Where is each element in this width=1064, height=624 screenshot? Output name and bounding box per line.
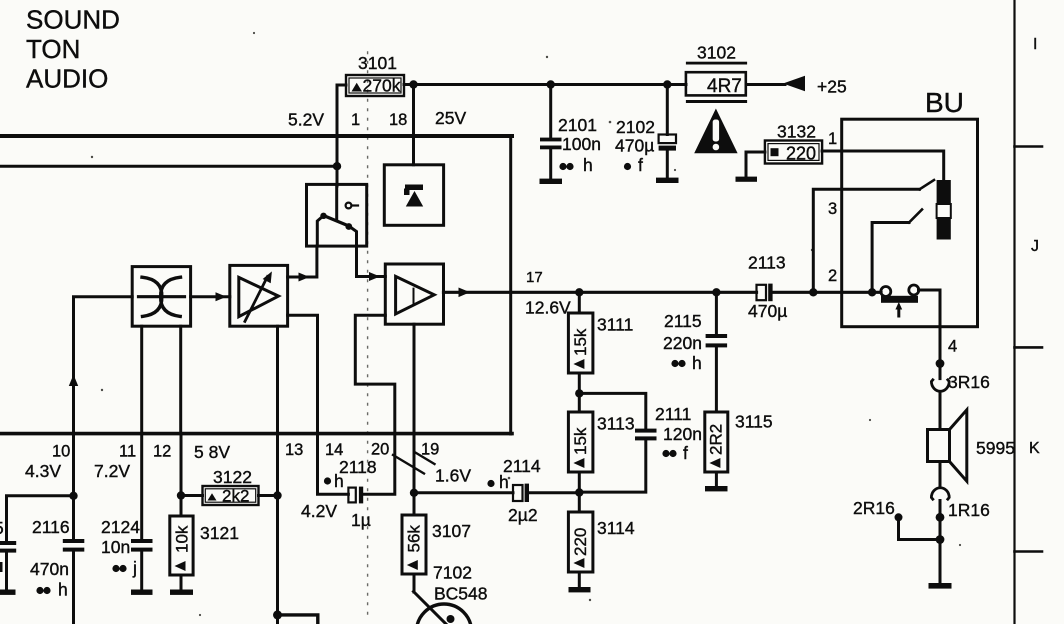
marker h for 2118 (324, 477, 331, 484)
resistor 3121 10k (170, 516, 239, 590)
svg-text:3114: 3114 (597, 518, 635, 538)
resistor 3113 15k (568, 412, 634, 472)
wire jack to pin 4 (919, 290, 941, 327)
ground speaker (929, 583, 952, 589)
svg-text:3101: 3101 (358, 53, 397, 73)
svg-text:h: h (583, 155, 593, 175)
jack break contact circle A (881, 287, 891, 297)
ground 3115 (705, 486, 728, 491)
svg-text:3102: 3102 (697, 43, 736, 63)
node junction pin12 (177, 491, 185, 499)
resistor 3102 4R7 fusible (686, 43, 747, 104)
ground 3132 (736, 177, 758, 182)
wire pin13 continues off sheet (276, 615, 279, 624)
capacitor 2113 470u (748, 253, 787, 322)
wire 5.2V rail (0, 165, 337, 168)
svg-text:220: 220 (571, 528, 590, 556)
switch contact to ring (909, 210, 922, 223)
mute switch block (307, 184, 367, 246)
svg-text:220: 220 (786, 144, 816, 164)
svg-text:BC548: BC548 (434, 584, 488, 604)
node junction speaker return (936, 535, 945, 544)
svg-text:2R16: 2R16 (853, 498, 895, 518)
svg-text:2R2: 2R2 (707, 424, 726, 455)
ground 3121 (170, 590, 193, 595)
capacitor 2114 2u2 (503, 456, 541, 525)
svg-text:18: 18 (389, 111, 407, 129)
svg-text:2101: 2101 (558, 115, 597, 135)
resistor 3132 220 (765, 122, 822, 164)
svg-text:2115: 2115 (664, 311, 702, 331)
node junction second switch (868, 288, 876, 296)
wire branch to edge capacitor (7, 496, 74, 541)
svg-text:100n: 100n (562, 134, 601, 154)
wire VCA output to switch (288, 246, 317, 277)
svg-text:15k: 15k (571, 328, 590, 356)
svg-text:+25: +25 (817, 77, 847, 97)
jack break contact circle B (909, 285, 919, 295)
svg-text:7102: 7102 (433, 563, 472, 583)
capacitor 2111 120n (635, 404, 702, 463)
svg-text:I: I (1033, 36, 1037, 53)
resistor 3101 270k (346, 53, 404, 96)
wire 2118 to pin 20 (363, 434, 395, 495)
zone tick K/L (1015, 550, 1043, 553)
wire second jack switch (872, 223, 909, 293)
output amplifier block (385, 264, 443, 324)
connector BU outline (842, 119, 978, 327)
jack actuator arrow (895, 302, 902, 316)
border column line (sheet zone edge) (1013, 0, 1015, 624)
wire filter pin 12 stub (179, 326, 182, 433)
node junction 3122/pin13 (273, 491, 281, 499)
wire 3113 to junction (578, 472, 581, 512)
svg-text:f: f (638, 155, 643, 175)
svg-text:20: 20 (371, 441, 389, 459)
zone tick J/K (1015, 346, 1043, 349)
warning triangle symbol (694, 109, 737, 154)
svg-text:2k2: 2k2 (222, 487, 249, 506)
node junction 2102/4R7 (663, 80, 671, 88)
svg-text:3R16: 3R16 (948, 372, 990, 392)
svg-text:3121: 3121 (200, 523, 239, 543)
wire pin13 branch right (278, 615, 318, 624)
wire VCA bottom to pin 13 (276, 326, 279, 433)
node junction pin3 on audio (809, 288, 817, 296)
IC block top edge (0, 134, 512, 138)
svg-text:2111: 2111 (655, 404, 691, 424)
wire speaker to 1R16 (939, 462, 942, 487)
svg-text:470µ: 470µ (748, 301, 787, 321)
wire +25 supply rail (404, 83, 686, 86)
svg-text:TON: TON (26, 34, 80, 64)
ground 2124 (131, 590, 153, 595)
wire pin19 below IC (413, 434, 416, 515)
svg-text:5995: 5995 (976, 438, 1015, 458)
IC block right edge (509, 136, 512, 434)
ground edge capacitor (0, 590, 16, 595)
svg-text:5 8V: 5 8V (194, 442, 230, 462)
node junction 3111/3113/2111 (575, 389, 583, 397)
wire pin12 below IC (180, 434, 183, 516)
svg-text:2102: 2102 (616, 117, 655, 137)
svg-text:5: 5 (0, 518, 4, 538)
svg-text:12: 12 (153, 443, 171, 461)
resistor 3107 56k (402, 515, 471, 574)
resistor 3115 2R2 (705, 412, 773, 487)
svg-text:2114: 2114 (503, 456, 541, 476)
svg-text:3132: 3132 (777, 122, 816, 142)
svg-text:4R7: 4R7 (707, 76, 742, 97)
capacitor 2115 220n (663, 292, 727, 412)
svg-text:10: 10 (52, 443, 70, 461)
node junction pin10 (69, 492, 77, 500)
resistor 3111 15k (568, 313, 633, 373)
svg-text:25V: 25V (435, 108, 466, 128)
bandpass filter block (132, 267, 190, 327)
svg-text:10k: 10k (173, 525, 192, 553)
svg-text:19: 19 (421, 441, 439, 459)
svg-text:5.2V: 5.2V (288, 110, 324, 130)
node +25 off-page arrow (783, 76, 805, 91)
svg-text:470µ: 470µ (615, 136, 654, 156)
arrow filter to VCA (216, 292, 227, 301)
arrow VCA output (299, 273, 310, 282)
node junction 2114/3113/3114 (575, 488, 583, 496)
wire 3111 to junction (578, 373, 581, 412)
svg-text:11: 11 (119, 443, 136, 461)
svg-text:K: K (1029, 440, 1040, 457)
ground 2101 (540, 179, 563, 184)
wire 2111 loop bottom (579, 440, 646, 492)
node pin1 junction on 5.2V rail (333, 162, 341, 170)
wire pin13 below IC (276, 434, 279, 615)
option slash pin 19 (415, 452, 435, 464)
wire pin10 below IC (72, 434, 75, 539)
stub 2R16 (853, 498, 940, 540)
jack tip contact black (937, 180, 951, 204)
svg-text:j: j (132, 558, 137, 578)
wire BU pin3 from audio line (813, 189, 919, 292)
scan specks (91, 32, 961, 616)
wire filter input from pin 10 (74, 297, 133, 434)
ground 3114 (569, 587, 591, 592)
svg-text:2: 2 (828, 267, 837, 285)
wire 2114 to divider junction (529, 491, 579, 494)
wire 3101 left lead (337, 85, 346, 186)
capacitor 2101 100n (540, 85, 601, 180)
svg-text:3: 3 (828, 200, 837, 218)
svg-text:2µ2: 2µ2 (508, 505, 538, 525)
svg-text:2124: 2124 (101, 517, 140, 537)
svg-text:3111: 3111 (597, 315, 633, 335)
svg-text:220n: 220n (663, 333, 702, 353)
connector 1R16 socket (931, 488, 949, 499)
wire BU pin1 to jack tip (842, 151, 944, 180)
svg-text:h: h (692, 353, 702, 373)
svg-text:10n: 10n (101, 537, 130, 557)
wire rail to arrow (746, 83, 785, 86)
zener block (384, 165, 443, 226)
capacitor at sheet edge (0, 518, 16, 590)
capacitor 2118 1u (339, 457, 377, 530)
wire filter to VCA (191, 295, 230, 298)
node terminal dot 1R16 (936, 513, 945, 522)
wire VCA bottom to pin 14 (288, 315, 318, 433)
node junction audio/2115 (712, 288, 720, 296)
wire pin19 junction to 2114 (414, 491, 513, 494)
connector 3R16 socket (931, 380, 949, 391)
svg-text:1: 1 (828, 130, 837, 148)
svg-text:BU: BU (925, 87, 964, 118)
svg-text:120n: 120n (663, 424, 702, 444)
wire amp bottom to pin 19 (413, 324, 416, 433)
ground 2102 (656, 178, 679, 183)
capacitor 2116 470n (30, 517, 84, 624)
svg-text:2116: 2116 (32, 517, 70, 537)
svg-text:h: h (58, 580, 68, 600)
node junction pin13 bottom (273, 610, 282, 619)
VCA block (230, 265, 288, 326)
svg-text:4: 4 (948, 338, 957, 356)
wire 1R16 to ground (939, 501, 942, 584)
wire pin18 to zener block (412, 85, 415, 165)
wire switch to output amp (357, 246, 386, 277)
node junction 2101 (547, 80, 555, 88)
svg-text:f: f (683, 443, 688, 463)
svg-text:1.6V: 1.6V (435, 466, 471, 486)
arrow up on pin10 wire (69, 375, 78, 387)
jack ring contact outline (937, 204, 951, 218)
arrow amp output (459, 288, 471, 298)
svg-text:270k: 270k (363, 76, 401, 96)
wire 3132 right lead to BU pin 1 (822, 150, 842, 153)
marker h for 2114 (487, 480, 494, 487)
svg-text:2113: 2113 (748, 253, 786, 273)
scan fold artifact (367, 52, 369, 618)
wire audio 2113 to BU (773, 291, 881, 294)
svg-text:1: 1 (351, 111, 360, 129)
loudspeaker 5995 (928, 410, 1015, 481)
svg-text:1R16: 1R16 (948, 500, 990, 520)
svg-text:3115: 3115 (735, 412, 773, 432)
svg-text:4.3V: 4.3V (25, 461, 61, 481)
node terminal dot 3R16 (936, 359, 945, 368)
wire pin4 to plug (939, 327, 942, 379)
wire 3132 left lead to ground (746, 152, 765, 177)
switch contact pin3 to tip (920, 180, 935, 189)
resistor 3122 2k2 (181, 467, 278, 506)
wire plug to speaker (939, 392, 942, 430)
svg-text:3107: 3107 (432, 521, 471, 541)
wire amp feedback to pin 20 (355, 315, 395, 433)
svg-text:SOUND: SOUND (26, 5, 120, 35)
IC block bottom edge (0, 432, 512, 436)
capacitor 2124 10n (101, 517, 153, 590)
svg-text:7.2V: 7.2V (94, 461, 130, 481)
wire pin11 below IC (140, 434, 143, 539)
node junction audio/3111 (575, 288, 583, 296)
node junction pin19/2114 (410, 489, 418, 497)
svg-text:2118: 2118 (339, 457, 377, 477)
wire filter pin 11 stub (140, 326, 143, 433)
transistor 7102 BC548 (414, 563, 488, 624)
svg-text:17: 17 (526, 269, 543, 286)
svg-text:AUDIO: AUDIO (26, 64, 108, 94)
arrow into output amp (369, 272, 380, 281)
svg-text:1µ: 1µ (351, 510, 371, 530)
svg-text:56k: 56k (405, 525, 424, 553)
svg-text:4.2V: 4.2V (301, 501, 337, 521)
svg-text:12.6V: 12.6V (525, 298, 571, 318)
capacitor 2102 470u electrolytic (615, 85, 676, 179)
svg-text:15k: 15k (571, 427, 590, 455)
wire pin14 below IC (318, 434, 349, 495)
jack sleeve contact black (937, 218, 951, 240)
svg-text:470n: 470n (30, 559, 69, 579)
zone tick I/J (1015, 145, 1043, 148)
wire audio line to 3111 (578, 292, 581, 313)
svg-text:13: 13 (285, 441, 303, 459)
svg-text:J: J (1031, 238, 1039, 255)
title SOUND TON AUDIO (26, 5, 120, 94)
node junction 3101/pin18 (409, 80, 417, 88)
wire 2111 loop top (579, 393, 646, 428)
svg-text:3113: 3113 (597, 414, 635, 434)
option slash pin 20 (393, 455, 424, 474)
jack contact bridge bar (881, 296, 918, 303)
resistor 3114 220 (568, 512, 634, 587)
svg-text:3122: 3122 (213, 467, 252, 487)
wire amp output pin 17 (444, 291, 757, 294)
